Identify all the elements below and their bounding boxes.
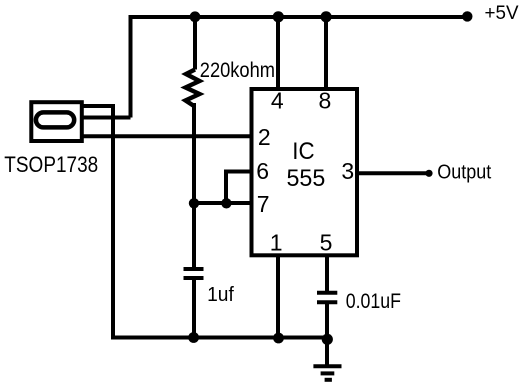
svg-text:1: 1 [270,230,283,256]
svg-text:555: 555 [287,165,326,192]
svg-text:TSOP1738: TSOP1738 [4,152,98,177]
svg-text:8: 8 [319,87,332,113]
svg-text:2: 2 [258,124,271,150]
svg-text:6: 6 [256,158,269,184]
svg-text:5: 5 [320,230,333,256]
svg-text:1uf: 1uf [207,284,234,306]
svg-text:IC: IC [292,138,314,165]
svg-text:7: 7 [257,191,270,217]
svg-text:Output: Output [437,161,491,183]
svg-text:+5V: +5V [485,2,519,24]
svg-text:3: 3 [341,158,354,184]
svg-text:220kohm: 220kohm [200,59,275,82]
svg-text:0.01uF: 0.01uF [346,290,401,313]
svg-text:4: 4 [271,87,284,113]
